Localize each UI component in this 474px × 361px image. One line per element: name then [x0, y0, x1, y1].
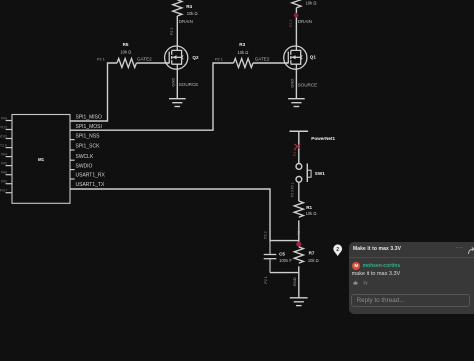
ground symbol (Q1) [288, 99, 305, 107]
ground symbol (bottom) [290, 298, 308, 306]
wire GATE2 from R5 to Q2 gate [136, 62, 169, 64]
pin number P2 3 (Q2 drain) [170, 28, 174, 35]
pin numbers P2 3 / P2 1 (switch-R1, rotated) [291, 182, 295, 197]
svg-text:SWDIO: SWDIO [76, 163, 93, 169]
net label USART1_RX [76, 173, 106, 179]
wire R1 to junction node [298, 220, 300, 244]
wire SW1 to R1 [298, 182, 300, 201]
svg-text:SPI1_SCK: SPI1_SCK [76, 144, 101, 150]
resistor R4 reference label [186, 4, 192, 9]
resistor R3 reference label [239, 42, 245, 47]
pin number P2 3 (Q1 drain, red) [289, 20, 293, 27]
svg-text:SOURCE: SOURCE [298, 82, 318, 87]
pin label DRAIN (Q1) [298, 19, 312, 24]
net label SPI1_MOSI [76, 124, 102, 130]
net label GATE2 (Q1) [255, 57, 270, 62]
svg-text:P2 3: P2 3 [289, 20, 293, 27]
svg-text:R1: R1 [306, 205, 312, 210]
wire C5 bottom to ground rail [270, 272, 299, 274]
resistor R1 [294, 201, 303, 217]
switch SW1 [296, 164, 311, 183]
capacitor C5 [264, 241, 277, 273]
svg-text:SPI1_MISO: SPI1_MISO [76, 115, 103, 121]
svg-text:100n F: 100n F [279, 258, 292, 263]
wire Q1 source to ground [295, 69, 297, 98]
pin number P2 4 (below R1) [297, 228, 301, 235]
svg-text:PA6: PA6 [1, 171, 7, 175]
svg-text:GND: GND [170, 78, 175, 87]
wire SPI1_MISO from M1 to R5 [70, 63, 117, 121]
svg-text:Q2: Q2 [192, 55, 199, 60]
resistor R7 reference label [309, 251, 315, 256]
svg-text:Q1: Q1 [310, 55, 317, 60]
net junction dot (red, RC node) [296, 242, 301, 247]
MCU M1 [12, 115, 70, 204]
resistor R5 value label 10k [120, 49, 131, 54]
svg-text:SPI1_MOSI: SPI1_MOSI [76, 124, 102, 130]
comment pin marker 2 [333, 244, 342, 256]
wire GATE2 from R3 to Q1 gate [253, 62, 288, 64]
wire PowerNet1 to SW1 [298, 131, 300, 163]
resistor R3 value label 10k [238, 50, 249, 55]
resistor R2 (top right, cut) [292, 0, 301, 8]
capacitor C5 value label 100n [279, 258, 292, 263]
net label GND rotated (bottom) [292, 277, 297, 286]
svg-text:SWCLK: SWCLK [0, 143, 8, 147]
svg-text:2: 2 [336, 247, 339, 253]
resistor R4 [173, 0, 182, 16]
wire Q2 source to ground [176, 69, 178, 98]
transistor Q1 [284, 46, 307, 69]
net label SWDIO [76, 163, 93, 169]
svg-text:P2 1: P2 1 [97, 57, 105, 61]
svg-text:P2 4: P2 4 [297, 228, 301, 235]
error marker X (red) on power wire [295, 144, 301, 149]
svg-text:R3: R3 [239, 42, 245, 47]
svg-text:PA4: PA4 [1, 152, 7, 156]
node label P2 1 (right) [215, 57, 223, 61]
wire R7 to ground [298, 266, 300, 297]
pin number P2 2 (power, red) [293, 149, 297, 156]
net label GND rotated (Q2) [170, 78, 175, 87]
net label USART1_TX [76, 182, 105, 188]
svg-text:P2 1: P2 1 [264, 276, 268, 283]
svg-text:DRAIN: DRAIN [298, 19, 312, 24]
svg-text:P2 3 P2 1: P2 3 P2 1 [291, 182, 295, 197]
svg-text:USART1_TX: USART1_TX [76, 182, 105, 188]
svg-text:P2 2: P2 2 [293, 149, 297, 156]
pin label SOURCE (Q1) [298, 82, 318, 87]
transistor Q2 [165, 46, 188, 69]
resistor R2 value label 10k [306, 1, 317, 6]
svg-text:10k Ω: 10k Ω [306, 211, 317, 216]
resistor R4 value label 10k [187, 11, 198, 16]
svg-text:SPI1_NSS: SPI1_NSS [76, 133, 101, 139]
svg-text:SOURCE: SOURCE [179, 82, 199, 87]
M1 right pin stubs [70, 140, 75, 179]
M1 left pin name labels (clipped at canvas edge) [0, 116, 8, 192]
svg-text:GATE2: GATE2 [255, 57, 270, 62]
svg-text:C5: C5 [279, 251, 285, 256]
pin number P2 1 (C5 bottom) [264, 276, 268, 283]
resistor R1 reference label [306, 205, 312, 210]
svg-text:10k Ω: 10k Ω [306, 1, 317, 6]
resistor R1 value label 10k [306, 211, 317, 216]
MCU M1 reference label [38, 157, 45, 162]
transistor Q1 reference label [310, 55, 317, 60]
wire R4 to Q2 drain [176, 16, 178, 46]
net label SPI1_NSS [76, 133, 101, 139]
svg-text:GND: GND [290, 79, 295, 88]
net junction dot (red, Q1 drain) [294, 13, 299, 18]
svg-text:PA10: PA10 [0, 125, 7, 129]
svg-text:R5: R5 [123, 42, 129, 47]
svg-text:10k Ω: 10k Ω [308, 258, 319, 263]
svg-text:USART1_RX: USART1_RX [76, 173, 106, 179]
wire SPI1_MOSI from M1 to R3 [70, 63, 234, 130]
M1 left pin stubs [6, 121, 12, 193]
net label GND rotated (Q1) [290, 79, 295, 88]
net label GATE2 (Q2) [137, 56, 152, 61]
resistor R7 [294, 247, 303, 263]
svg-text:P2 2: P2 2 [264, 231, 268, 238]
wire USART1_TX from M1 to RC node [70, 189, 299, 241]
resistor R3 [234, 59, 253, 68]
wire R2 to Q1 drain [295, 8, 297, 46]
svg-text:10k Ω: 10k Ω [187, 11, 198, 16]
resistor R5 reference label [123, 42, 129, 47]
svg-text:SWCLK: SWCLK [76, 154, 94, 160]
svg-text:R4: R4 [186, 4, 192, 9]
svg-text:PA0: PA0 [1, 180, 7, 184]
svg-text:SWDIO: SWDIO [0, 134, 8, 138]
svg-text:DRAIN: DRAIN [179, 19, 193, 24]
svg-text:P2 1: P2 1 [215, 57, 223, 61]
ground symbol (Q2) [169, 99, 186, 107]
pin label SOURCE (Q2) [179, 82, 199, 87]
net label SWCLK [76, 154, 94, 160]
net label SPI1_SCK [76, 144, 101, 150]
pin label DRAIN (Q2) [179, 19, 193, 24]
net label SPI1_MISO [76, 115, 103, 121]
svg-text:GATE2: GATE2 [137, 56, 152, 61]
svg-text:PowerNet1: PowerNet1 [311, 136, 335, 141]
svg-text:PA9: PA9 [1, 116, 7, 120]
node label P2 1 (left) [97, 57, 105, 61]
pin number P2 2 (red, by C5 top) [264, 231, 268, 238]
svg-text:R7: R7 [309, 251, 315, 256]
resistor R7 value label 10k [308, 258, 319, 263]
svg-text:NRST: NRST [0, 189, 7, 193]
switch SW1 reference label [315, 171, 325, 176]
svg-text:GND: GND [292, 277, 297, 286]
svg-text:10k Ω: 10k Ω [120, 49, 131, 54]
svg-text:PA5: PA5 [1, 161, 7, 165]
power net name label PowerNet1 [311, 136, 335, 141]
svg-text:10k Ω: 10k Ω [238, 50, 249, 55]
svg-text:SW1: SW1 [315, 171, 325, 176]
svg-text:P2 3: P2 3 [170, 28, 174, 35]
svg-text:M1: M1 [38, 157, 45, 162]
transistor Q2 reference label [192, 55, 199, 60]
capacitor C5 reference label [279, 251, 285, 256]
resistor R5 [117, 59, 136, 68]
power symbol PowerNet1 [290, 130, 309, 132]
